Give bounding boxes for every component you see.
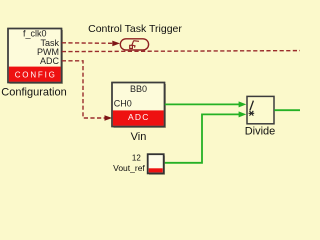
svg-text:ADC: ADC: [40, 56, 60, 66]
wire ADC (dashed, L-shaped): [62, 61, 106, 118]
arrowhead Divide input 1: [239, 101, 247, 107]
svg-text:CONFIG: CONFIG: [15, 71, 57, 80]
svg-text:Vin: Vin: [131, 131, 147, 143]
arrowhead Divide input 2: [239, 111, 247, 117]
Configuration block border redraw: [8, 29, 62, 83]
wire Task (dashed): [62, 42, 113, 45]
wire Vout_ref to Divide input 2 (green): [164, 114, 240, 162]
Configuration block red CONFIG band: [9, 67, 61, 82]
Vin block border redraw: [112, 83, 165, 127]
svg-text:Vout_ref: Vout_ref: [113, 163, 145, 173]
Vin block U2 shadow: [114, 84, 167, 128]
Configuration block U1 body: [8, 29, 62, 83]
Vout_ref constant block U4 body: [148, 154, 164, 173]
Vout_ref constant block U4 shadow: [149, 156, 165, 175]
Divide icon slash: [250, 101, 254, 111]
Control Task Trigger block (oval): [120, 39, 148, 50]
svg-text:CH0: CH0: [114, 98, 132, 108]
arrowhead ADC wire: [105, 115, 113, 121]
svg-text:12: 12: [132, 153, 141, 162]
svg-text:Configuration: Configuration: [1, 87, 66, 99]
Vin block U2 body: [112, 83, 165, 127]
arrowhead Task wire: [112, 41, 120, 47]
wire Vin output to Divide input 1 (green): [165, 103, 240, 105]
svg-text:Divide: Divide: [245, 126, 276, 138]
Vout_ref block red band: [149, 168, 163, 172]
svg-text:ADC: ADC: [128, 112, 150, 122]
svg-text:Control Task Trigger: Control Task Trigger: [88, 23, 182, 35]
wire Divide output (green): [274, 109, 300, 111]
Vin block red ADC band: [113, 110, 164, 125]
Divide block U3 body: [247, 96, 274, 123]
wire PWM (dashed): [62, 51, 300, 52]
svg-text:BB0: BB0: [130, 84, 147, 94]
Configuration block U1 shadow: [10, 30, 64, 84]
Divide icon asterisk: [249, 111, 255, 116]
canvas background: [0, 0, 300, 200]
Control Task Trigger glyph: [130, 41, 139, 49]
